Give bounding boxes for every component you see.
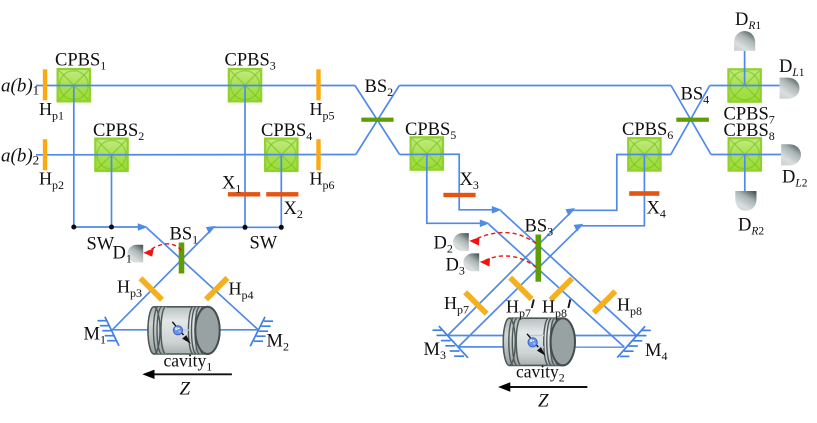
svg-text:CPBS6: CPBS6 <box>622 120 673 142</box>
X plate X2 <box>266 192 298 196</box>
wire SW-left horizontal to arrow <box>74 226 144 228</box>
svg-text:a(b)2: a(b)2 <box>1 146 39 168</box>
svg-text:X3: X3 <box>460 170 479 192</box>
svg-text:CPBS8: CPBS8 <box>724 121 775 143</box>
half-wave plate Hp2 <box>43 139 47 170</box>
CPBS U3 polarizing splitter square <box>229 69 261 101</box>
svg-text:a(b)1: a(b)1 <box>1 76 39 98</box>
node SW junction dot 2 <box>109 225 114 230</box>
wire CPBS3 down through X1 to SW node <box>244 85 246 227</box>
svg-text:BS3: BS3 <box>525 217 554 239</box>
arrow at top of beam B <box>574 224 584 232</box>
arrow on SW-left wire <box>138 223 148 231</box>
CPBS U6 polarizing splitter square <box>628 138 660 170</box>
wire diagonal F1 from SW arrow through BS1 and Hp4 to M2 <box>147 228 259 330</box>
CPBS U4 polarizing splitter square <box>265 139 297 171</box>
wire diagonal B M3 lower through Hp7' and BS3 up <box>458 226 581 347</box>
wire BS2 X crossing left-down <box>355 86 400 155</box>
svg-text:SW: SW <box>87 235 115 255</box>
node SW junction dot 1 <box>71 225 76 230</box>
svg-text:Hp4: Hp4 <box>229 279 254 303</box>
mirror M1 <box>98 317 120 346</box>
svg-text:D2: D2 <box>434 234 453 256</box>
svg-text:D3: D3 <box>446 256 465 278</box>
CPBS U8 polarizing splitter square <box>729 138 761 170</box>
svg-text:M2: M2 <box>267 332 289 354</box>
wire diagonal F2 from M1 through Hp3 and BS1 up to arrow <box>112 229 212 330</box>
wire BS4 X crossing up <box>671 86 710 155</box>
red arrowhead at D1 <box>143 248 154 256</box>
arrow at top of beam A <box>565 208 575 216</box>
CPBS U5 polarizing splitter square <box>411 137 443 169</box>
detector DL1 <box>780 78 800 99</box>
wire CPBS4 down through X2 to SW node <box>280 155 282 228</box>
detector D2 <box>453 233 469 251</box>
svg-text:DR2: DR2 <box>738 216 764 238</box>
mirror M4 <box>617 326 651 357</box>
half-wave plate Hp5 <box>316 69 320 100</box>
wire SW-right horizontal <box>212 226 281 228</box>
svg-text:CPBS1: CPBS1 <box>55 51 106 73</box>
X plate X1 <box>228 192 260 196</box>
wire CPBS8 down to DR2 <box>744 154 746 191</box>
X plate X3 <box>443 193 475 197</box>
svg-text:CPBS4: CPBS4 <box>261 121 312 143</box>
beam splitter BS1 bar <box>179 243 185 274</box>
svg-text:CPBS3: CPBS3 <box>225 51 276 73</box>
svg-text:Hp8: Hp8 <box>617 295 642 319</box>
wire cavity1 horizontal beam M1 to M2 <box>112 329 258 331</box>
wire rail1 right through CPBS7 to DL1 <box>710 85 780 87</box>
svg-text:DL1: DL1 <box>779 57 805 79</box>
red arrowhead at D2 <box>469 237 479 246</box>
wire CPBS7 up to DR1 <box>744 51 746 86</box>
svg-text:Hp6: Hp6 <box>310 169 335 193</box>
half-wave plate Hp7 diagonal <box>463 290 488 315</box>
atom in cavity 1 with spin arrow <box>172 322 191 344</box>
mirror M3 <box>433 326 469 358</box>
svg-text:X4: X4 <box>647 199 666 221</box>
wire rail2 left: a(b)2 input through CPBS2,CPBS4,Hp6 to BS2 <box>36 154 356 156</box>
arrow on CPBS5 wire <box>480 220 490 228</box>
wire CPBS1 down to SW node <box>73 85 75 227</box>
svg-text:DR1: DR1 <box>735 10 761 32</box>
svg-text:BS4: BS4 <box>681 85 710 107</box>
svg-text:Hp7: Hp7 <box>506 297 531 321</box>
half-wave plate Hp8 diagonal <box>592 289 617 314</box>
svg-text:X1: X1 <box>222 174 241 196</box>
node SW junction dot 4 <box>279 225 284 230</box>
wire cavity2 upper horizontal beam M3 to M4 <box>448 335 637 337</box>
svg-text:Hp1: Hp1 <box>39 99 64 123</box>
svg-text:Z: Z <box>180 379 191 400</box>
red dashed pointer BS1 to D1 <box>148 244 182 252</box>
svg-text:BS1: BS1 <box>170 225 199 247</box>
svg-text:Hp5: Hp5 <box>310 99 335 123</box>
wire diagonal A M3 upper through Hp7 and BS3 up <box>448 210 573 335</box>
half-wave plate Hp1 <box>43 69 47 100</box>
svg-text:CPBS2: CPBS2 <box>93 121 144 143</box>
svg-text:Hp2: Hp2 <box>39 169 64 193</box>
wire BS2 X crossing left-up <box>356 86 400 155</box>
svg-text:Hp7: Hp7 <box>444 293 469 317</box>
svg-text:D1: D1 <box>113 244 132 266</box>
detector D3 <box>463 253 479 271</box>
arrow on X3 wire <box>492 206 502 214</box>
svg-text:M4: M4 <box>645 341 667 363</box>
cavity 1 cylinder <box>148 307 220 354</box>
svg-text:X2: X2 <box>284 199 303 221</box>
wire rail2 BS2 to CPBS5 then right <box>400 154 496 210</box>
svg-text:cavity2: cavity2 <box>516 362 565 385</box>
svg-text:BS2: BS2 <box>365 77 394 99</box>
arrow at top of BS1 up-right beam <box>206 226 216 234</box>
detector DR2 <box>735 191 756 211</box>
svg-text:CPBS5: CPBS5 <box>405 120 456 142</box>
wire rail1 left: a(b)1 input through CPBS1,CPBS3,Hp5 to BS2 <box>36 85 355 87</box>
beam splitter BS4 bar <box>676 118 709 122</box>
half-wave plate Hp4 diagonal <box>204 276 229 301</box>
svg-text:SW: SW <box>250 234 278 254</box>
beam splitter BS3 bar <box>536 235 542 282</box>
svg-text:Hp3: Hp3 <box>117 277 142 301</box>
CPBS U7 polarizing splitter square <box>728 69 760 101</box>
wire CPBS5 down then right <box>427 154 484 224</box>
svg-text:Hp8: Hp8 <box>542 297 567 321</box>
wire rail1 long segment BS2 to BS4 <box>399 85 671 87</box>
red dashed pointer BS3 to D3 <box>484 256 536 268</box>
detector DR1 <box>734 31 755 51</box>
wire cavity2 lower horizontal beam M3 to M4 <box>458 346 624 348</box>
half-wave plate Hp6 <box>316 139 320 170</box>
mirror M2 <box>250 317 273 346</box>
beam splitter BS2 bar <box>361 118 393 122</box>
wire diagonal E1 X3-path into BS3 down to M4 upper <box>501 211 637 336</box>
wire horizontal B to X4 up into CPBS6 <box>581 154 644 225</box>
atom in cavity 2 with spin arrow <box>527 334 546 356</box>
red arrowhead at D3 <box>480 258 490 267</box>
Z arrow cavity2 <box>498 382 587 391</box>
wire BS4 to CPBS8 to DL2 <box>711 154 781 156</box>
CPBS U1 polarizing splitter square <box>58 69 90 101</box>
svg-text:cavity1: cavity1 <box>164 351 213 374</box>
svg-text:M1: M1 <box>84 325 106 347</box>
half-wave plate Hp7p diagonal <box>508 276 533 301</box>
detector DL2 <box>781 144 801 165</box>
wire BS4 X crossing down <box>671 86 711 155</box>
cavity 2 cylinder <box>503 318 575 365</box>
Z arrow cavity1 <box>142 370 232 379</box>
detector D1 <box>127 245 143 263</box>
wire diagonal E2 CPBS5-path through Hp8' to M4 lower <box>489 224 625 347</box>
half-wave plate Hp8p diagonal <box>549 276 574 301</box>
svg-text:Z: Z <box>538 391 549 412</box>
half-wave plate Hp3 diagonal <box>138 276 163 301</box>
wire CPBS2 down to SW node <box>111 155 113 227</box>
svg-text:DL2: DL2 <box>782 168 808 190</box>
wire horizontal A to CPBS6 left <box>573 155 671 211</box>
X plate X4 <box>629 191 659 196</box>
svg-text:M3: M3 <box>424 340 446 362</box>
CPBS U2 polarizing splitter square <box>95 139 127 171</box>
node SW junction dot 3 <box>243 225 248 230</box>
red dashed pointer BS3 to D2 <box>474 233 537 244</box>
